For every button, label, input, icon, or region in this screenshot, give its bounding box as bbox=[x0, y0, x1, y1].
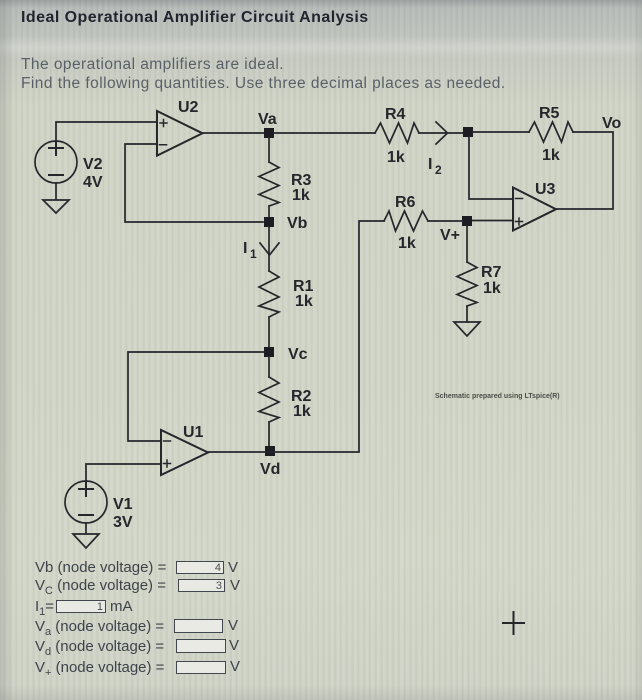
label V1 value bbox=[113, 496, 133, 531]
op-amp U3 bbox=[513, 188, 556, 231]
label U1 bbox=[183, 424, 204, 441]
resistor R7 bbox=[457, 262, 477, 306]
wire U3 minus input up to junction bbox=[469, 137, 513, 199]
label R6 value 1k bbox=[395, 194, 416, 252]
label Va bbox=[258, 111, 277, 128]
wire Vc down to R2 bbox=[268, 357, 270, 377]
wire R6 left down to Vd rail bbox=[359, 221, 384, 451]
svg-text:R6: R6 bbox=[395, 194, 416, 211]
svg-text:V2: V2 bbox=[83, 156, 103, 173]
resistor R6 bbox=[384, 211, 428, 231]
label LTspice credit bbox=[435, 393, 560, 400]
label R2 value 1k bbox=[291, 388, 312, 420]
label U3 bbox=[535, 181, 556, 198]
svg-text:V1: V1 bbox=[113, 496, 133, 513]
svg-text:Vb: Vb bbox=[287, 215, 308, 232]
ground below V2 bbox=[43, 183, 69, 213]
ground below R7 bbox=[454, 322, 480, 336]
label V+ bbox=[440, 227, 460, 244]
wire V+ to R6 bbox=[428, 220, 462, 222]
svg-text:1k: 1k bbox=[398, 235, 416, 252]
svg-text:1k: 1k bbox=[293, 403, 311, 420]
label R7 value 1k bbox=[481, 264, 502, 297]
wire U1 plus input to V1 bbox=[86, 464, 161, 481]
svg-text:Schematic prepared using LTspi: Schematic prepared using LTspice(R) bbox=[435, 393, 560, 400]
wire R5 to Vo corner down to U3 output bbox=[555, 132, 613, 209]
svg-text:1k: 1k bbox=[542, 147, 560, 164]
wire Va down to R3 bbox=[268, 138, 270, 162]
svg-text:2: 2 bbox=[435, 163, 442, 177]
wire R1 to Vc bbox=[268, 317, 270, 352]
svg-text:1k: 1k bbox=[483, 280, 501, 297]
wire junction to R5 bbox=[473, 131, 529, 133]
svg-text:Vo: Vo bbox=[602, 115, 621, 132]
label Vo bbox=[602, 115, 621, 132]
op-amp U1 bbox=[161, 430, 208, 475]
svg-text:R7: R7 bbox=[481, 264, 502, 281]
label Vc bbox=[288, 346, 308, 363]
wire Va to R4 bbox=[274, 132, 375, 134]
voltage source V2 bbox=[35, 141, 77, 183]
svg-text:I: I bbox=[243, 240, 247, 257]
wire R3 to Vb bbox=[268, 206, 270, 222]
wire R7 to ground bbox=[466, 306, 468, 322]
resistor R4 bbox=[375, 123, 419, 143]
node Vb bbox=[264, 217, 274, 227]
label R1 value 1k bbox=[293, 278, 314, 310]
svg-text:1k: 1k bbox=[295, 293, 313, 310]
ground below V1 bbox=[73, 523, 99, 548]
svg-text:1k: 1k bbox=[387, 149, 405, 166]
node junction R4-R5 bbox=[463, 127, 473, 137]
wire V2 top to U2 plus input bbox=[56, 122, 157, 141]
svg-text:I: I bbox=[428, 156, 432, 173]
resistor R5 bbox=[529, 122, 573, 142]
svg-text:Vc: Vc bbox=[288, 346, 308, 363]
svg-text:4V: 4V bbox=[83, 174, 103, 191]
label Vb bbox=[287, 215, 308, 232]
svg-text:R4: R4 bbox=[385, 106, 406, 123]
resistor R2 bbox=[259, 377, 279, 422]
wire U2 feedback (minus input to Vb) bbox=[125, 144, 263, 222]
svg-text:1: 1 bbox=[250, 247, 257, 261]
label R3 value 1k bbox=[291, 172, 312, 204]
wire R2 to Vd bbox=[268, 422, 270, 451]
wire R4 to junction with I2 arrow bbox=[419, 122, 463, 144]
label U2 bbox=[178, 99, 199, 116]
svg-text:Vd: Vd bbox=[260, 461, 280, 478]
svg-text:R5: R5 bbox=[539, 105, 560, 122]
wire Vb down to R1 with I1 arrow bbox=[260, 227, 279, 271]
label V2 value bbox=[83, 156, 103, 191]
op-amp U2 bbox=[157, 111, 203, 156]
voltage source V1 bbox=[65, 481, 107, 523]
resistor R1 bbox=[259, 271, 279, 317]
label current I1 bbox=[243, 240, 257, 261]
svg-text:U3: U3 bbox=[535, 181, 556, 198]
svg-text:U2: U2 bbox=[178, 99, 199, 116]
svg-text:Va: Va bbox=[258, 111, 277, 128]
node Vd bbox=[265, 446, 275, 456]
wire U1 output to Vd rail bbox=[208, 451, 359, 453]
resistor R3 bbox=[259, 162, 279, 206]
wire U3 plus input to node V+ bbox=[472, 220, 513, 222]
svg-text:3V: 3V bbox=[113, 514, 133, 531]
label current I2 bbox=[428, 156, 442, 177]
cursor cross bbox=[503, 612, 524, 634]
svg-text:V+: V+ bbox=[440, 227, 460, 244]
label Vd bbox=[260, 461, 280, 478]
label R4 value 1k bbox=[385, 106, 406, 166]
node V+ bbox=[462, 216, 472, 226]
wire U2 output to Va bbox=[203, 132, 269, 134]
svg-text:U1: U1 bbox=[183, 424, 204, 441]
wire Vc feedback to U1 minus input bbox=[128, 352, 264, 441]
node Vc bbox=[264, 347, 274, 357]
wire V+ down to R7 bbox=[466, 226, 468, 262]
label R5 value 1k bbox=[539, 105, 560, 164]
node Va bbox=[264, 128, 274, 138]
svg-text:1k: 1k bbox=[292, 187, 310, 204]
